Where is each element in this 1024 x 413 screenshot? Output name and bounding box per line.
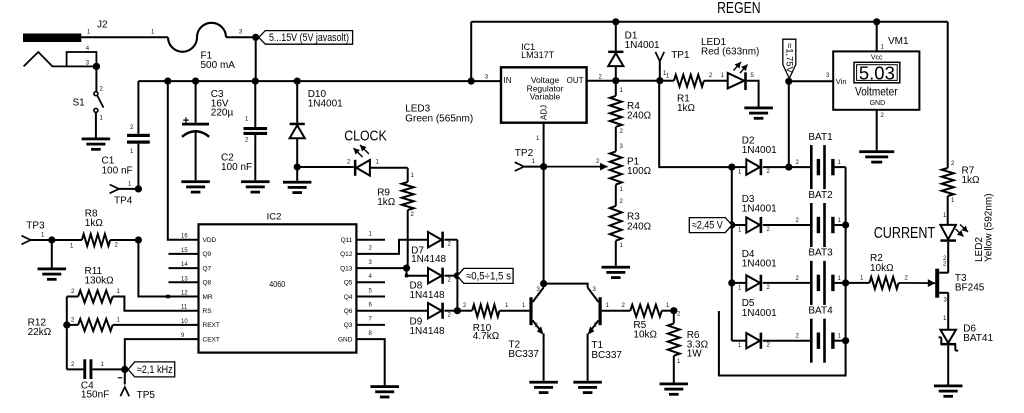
label R1 1kOhm <box>677 94 696 115</box>
ground under D10 <box>283 181 312 194</box>
IC2 stub Q3 <box>356 324 385 326</box>
wire LED2 to T3 drain <box>947 242 949 273</box>
IC2 stub Q8 <box>169 281 199 283</box>
test point TP2 <box>515 159 544 171</box>
wire node to D8 <box>405 268 428 277</box>
label D2 1N4001 <box>742 135 777 156</box>
wire node to rail <box>255 37 257 81</box>
svg-text:OUT: OUT <box>567 76 584 85</box>
diode D2 1N4001 <box>746 159 762 175</box>
wire R11 left <box>67 289 121 297</box>
wire R1 to LED1 <box>704 73 728 81</box>
IC2 pin name Q8 <box>181 276 212 286</box>
wire D9 to bus <box>445 311 458 319</box>
diode D10 1N4001 <box>290 123 305 139</box>
wire Q13 to node <box>356 267 406 269</box>
wire C4 to node <box>92 362 124 369</box>
resistor R3 <box>610 206 622 241</box>
wire D10 top lead <box>296 81 298 123</box>
ground under R6 <box>660 383 689 396</box>
svg-text:BAT41: BAT41 <box>963 333 993 344</box>
node rail C3 <box>192 78 199 85</box>
node Q13 R9 D8 <box>403 265 410 272</box>
diode D5 1N4001 <box>746 333 762 349</box>
svg-text:S1: S1 <box>73 98 86 109</box>
IC1 pin 3 number <box>485 75 489 81</box>
wire TP1 to R1 <box>660 74 674 81</box>
wire T1 emitter to ground <box>587 334 589 381</box>
wire C1 to TP4 node <box>130 144 138 189</box>
switch S1 <box>94 87 104 122</box>
diode D4 1N4001 <box>746 275 762 291</box>
label R4 240 Ohm <box>627 101 652 122</box>
label Voltmeter <box>855 87 898 99</box>
node D9 R10 <box>454 307 461 314</box>
ground under C2 <box>241 180 269 193</box>
op-amp U1 IC1 LM317T box <box>501 67 587 122</box>
svg-text:5...15V (5V javasolt): 5...15V (5V javasolt) <box>269 32 349 44</box>
label IC2 <box>267 211 282 222</box>
transistor Q2 T2 BC337 <box>529 287 543 335</box>
svg-text:1N4001: 1N4001 <box>308 99 343 110</box>
VM1 GND pin wire <box>877 110 885 151</box>
svg-text:1N4001: 1N4001 <box>742 145 777 156</box>
ground under D6 <box>934 385 963 398</box>
label R8 1kOhm <box>85 208 104 229</box>
battery return bus <box>719 167 846 375</box>
diode D8 1N4148 <box>428 268 444 284</box>
svg-text:1N4148: 1N4148 <box>410 290 445 301</box>
flag 5...15V (5V javasolt) <box>259 31 353 45</box>
VM1 pin name GND <box>870 100 886 107</box>
svg-text:CURRENT: CURRENT <box>874 225 936 242</box>
battery BAT3 <box>810 261 835 305</box>
ground under C3 <box>181 180 210 193</box>
wire D1 top lead <box>615 22 617 51</box>
battery BAT4 <box>810 319 835 363</box>
svg-text:IN: IN <box>504 76 512 85</box>
VM1 pin name Vcc <box>871 55 883 62</box>
label R10 4.7kOhm <box>473 323 500 342</box>
main input rail <box>138 80 501 82</box>
resistor R9 <box>402 182 414 210</box>
node rail D10 <box>294 78 301 85</box>
svg-text:Q8: Q8 <box>203 280 212 287</box>
svg-text:Variable: Variable <box>530 92 561 102</box>
label BAT3 <box>808 248 833 259</box>
svg-text:1N4001: 1N4001 <box>742 259 777 270</box>
wire LED1 to ground <box>747 81 759 107</box>
svg-text:RS: RS <box>203 308 213 315</box>
IC2 pin name RS <box>181 305 212 315</box>
IC2 pin name VDD <box>181 234 217 244</box>
label LED2 Yellow (592nm) <box>974 193 995 262</box>
svg-text:TP3: TP3 <box>26 220 45 231</box>
label D10 1N4001 <box>308 89 343 110</box>
label CLOCK <box>344 129 387 145</box>
wire C2 to ground <box>245 135 255 180</box>
svg-text:1kΩ: 1kΩ <box>962 175 981 186</box>
svg-text:1kΩ: 1kΩ <box>85 218 104 229</box>
wire RS from R11 <box>113 297 199 311</box>
test point TP3 <box>21 233 51 245</box>
resistor R7 <box>942 168 954 196</box>
resistor R2 <box>869 277 898 289</box>
svg-text:1N4148: 1N4148 <box>410 326 445 337</box>
label R9 1kOhm <box>377 188 396 209</box>
svg-text:BAT3: BAT3 <box>808 248 833 259</box>
wire R12 left <box>67 318 121 325</box>
wire BAT1 to bus <box>835 160 846 167</box>
svg-text:1kΩ: 1kΩ <box>377 197 396 208</box>
label C3 16V 220u <box>211 89 234 119</box>
wire node to R8 <box>52 240 82 250</box>
wire bus to D2 <box>732 167 747 176</box>
node ADJ TP2 <box>540 163 547 170</box>
wire Vin node down to BAT1 <box>788 81 790 167</box>
label D5 1N4001 <box>742 298 777 319</box>
node D10 LED3 ground <box>294 163 301 170</box>
svg-text:TP1: TP1 <box>671 50 690 61</box>
svg-text:10kΩ: 10kΩ <box>633 330 657 341</box>
battery BAT2 <box>810 203 835 247</box>
top rail REGEN <box>471 21 948 23</box>
label BAT2 <box>808 190 833 201</box>
transistor Q1 T1 BC337 <box>588 287 602 335</box>
label R6 3.3 Ohm 1W <box>687 330 709 359</box>
wire D1 to OUT node <box>615 66 617 81</box>
svg-text:VDD: VDD <box>203 237 217 244</box>
IC1 pin name ADJ <box>540 105 549 120</box>
VM1 display <box>854 62 900 83</box>
node bus BAT4 <box>842 337 849 344</box>
node rail IC1 IN branch <box>468 78 475 85</box>
ground under T1 <box>573 381 602 394</box>
wire R7 lead from rail <box>948 22 955 168</box>
ground under R3 <box>602 266 631 279</box>
capacitor C4 <box>83 359 92 379</box>
IC2 stub Q7 <box>169 267 199 269</box>
diode D6 BAT41 schottky <box>939 330 959 351</box>
label D8 1N4148 <box>410 281 445 301</box>
resistor R8 <box>82 234 110 246</box>
wire ADJ node down to collectors <box>543 167 545 284</box>
node rail C2 <box>252 78 259 85</box>
svg-text:130kΩ: 130kΩ <box>85 275 115 286</box>
label TP3 <box>26 220 45 231</box>
wire node to LED3 <box>297 160 354 168</box>
capacitor C3 electrolytic <box>182 115 209 137</box>
label T1 BC337 <box>591 340 622 361</box>
node top rail VM1 Vcc <box>873 18 880 25</box>
IC2 pin name CEXT <box>181 333 220 343</box>
svg-text:BAT1: BAT1 <box>808 132 833 143</box>
wire T2 collector up <box>543 284 545 288</box>
wire IC1 ADJ <box>536 123 544 167</box>
label BAT1 <box>808 132 833 143</box>
battery BAT1 <box>810 145 835 189</box>
node bus BAT2 <box>842 221 849 228</box>
node flag timing <box>454 272 461 279</box>
diode D1 1N4001 <box>608 51 623 67</box>
IC2 pin name Q12 <box>340 246 372 259</box>
label P1 100 Ohm <box>627 156 652 177</box>
svg-text:Vin: Vin <box>836 77 847 86</box>
wire CEXT to C4 node <box>125 339 199 369</box>
wire C1 top lead <box>130 81 138 134</box>
wire C3 to ground <box>195 131 197 181</box>
IC2 pin name Q4 <box>344 288 373 301</box>
label F1 500 mA <box>201 51 236 71</box>
node jack pin 3 <box>93 63 100 70</box>
node Vin BAT1 <box>785 164 792 171</box>
svg-text:Q12: Q12 <box>340 251 353 258</box>
label TP2 <box>515 148 534 159</box>
wire jack to S1 <box>95 66 97 92</box>
wire diode bus 457 <box>456 240 458 311</box>
node top rail D1 <box>612 18 619 25</box>
label D1 1N4001 <box>625 31 660 51</box>
label TP4 <box>114 196 133 207</box>
wire MR from R8 node <box>138 240 198 298</box>
svg-text:Q6: Q6 <box>344 308 353 315</box>
resistor R10 <box>472 305 499 317</box>
label R7 1kOhm <box>962 166 981 187</box>
svg-text:Q7: Q7 <box>203 265 212 272</box>
IC1 inner text <box>527 75 564 101</box>
IC2 stub Q5 <box>356 281 385 283</box>
wire jack tip to fuse <box>81 30 168 38</box>
node R8 C1 MR <box>135 236 142 243</box>
wire bus to D3 <box>732 225 747 234</box>
label C2 100 nF <box>221 153 252 173</box>
svg-text:Q4: Q4 <box>344 294 353 301</box>
svg-text:240Ω: 240Ω <box>627 221 652 232</box>
svg-text:GND: GND <box>338 336 353 343</box>
svg-text:≈1,75V: ≈1,75V <box>784 43 795 74</box>
flag approx 0,5-1,5 s <box>457 268 513 283</box>
diode D9 1N4148 <box>428 303 444 319</box>
svg-text:Q11: Q11 <box>341 237 353 244</box>
node TP3 R8 <box>48 236 55 243</box>
svg-text:4060: 4060 <box>269 279 285 289</box>
label 4060 <box>269 279 285 289</box>
svg-text:100 nF: 100 nF <box>221 162 252 173</box>
wire R10 to T2 base <box>500 303 530 311</box>
node C4 CEXT TP5 <box>121 366 128 373</box>
node R12 left <box>63 321 70 328</box>
svg-text:BAT2: BAT2 <box>808 190 833 201</box>
svg-text:5.03: 5.03 <box>859 64 895 84</box>
wire R7 to LED2 <box>943 196 955 225</box>
svg-text:J2: J2 <box>97 20 108 31</box>
svg-text:22kΩ: 22kΩ <box>28 327 52 338</box>
IC2 pin name GND <box>338 331 373 344</box>
wire P1 to R3 <box>616 185 624 206</box>
diode D7 1N4148 <box>428 232 444 248</box>
diode bus vertical <box>731 167 733 341</box>
jack switch contact box <box>67 46 97 67</box>
svg-text:Voltmeter: Voltmeter <box>855 87 898 99</box>
wire D2 to BAT1 <box>763 160 810 175</box>
label J2 <box>97 20 108 31</box>
node TP1 <box>656 77 663 84</box>
wire R4 top lead <box>616 81 624 96</box>
test point TP4 <box>110 182 139 194</box>
wire REXT from R12 <box>113 324 199 326</box>
node rail VDD branch <box>164 78 171 85</box>
wire R8 to node <box>110 240 138 249</box>
svg-text:Green (565nm): Green (565nm) <box>405 114 473 125</box>
wire R6 to ground <box>674 356 681 383</box>
wire C3 top lead <box>195 81 197 123</box>
svg-text:1W: 1W <box>687 348 703 359</box>
label CURRENT <box>874 225 936 242</box>
wire S1 to ground <box>95 112 97 137</box>
LED LED2 <box>940 225 968 263</box>
node fuse output <box>252 34 259 41</box>
wire Q6 to D9 <box>356 310 428 312</box>
svg-text:REGEN: REGEN <box>717 0 761 17</box>
IC2 pin name Q6 <box>344 303 373 316</box>
connector J2 plug tip bar <box>23 34 81 43</box>
P1 wiper arrow <box>544 159 608 171</box>
IC2 pin name MR <box>181 291 213 301</box>
IC2 pin name Q11 <box>341 232 373 245</box>
wire D4 to BAT3 <box>763 276 810 291</box>
wire TP3 node to ground <box>51 240 53 268</box>
svg-text:BC337: BC337 <box>591 350 622 361</box>
IC2 pin name Q3 <box>344 317 373 330</box>
wire BAT4 to bus <box>835 334 846 341</box>
svg-text:Q5: Q5 <box>344 280 353 287</box>
wire OUT row to TP1 <box>616 80 660 82</box>
capacitor C1 <box>127 134 150 144</box>
wire bus to D4 <box>732 283 747 292</box>
wire R4 to P1 <box>616 127 624 152</box>
wire LED3 to R9 <box>370 160 415 183</box>
label R5 10kOhm <box>633 320 657 341</box>
wire rail up to top rail <box>470 22 472 81</box>
node diode bus top <box>728 164 735 171</box>
fuse F1 <box>168 23 226 52</box>
potentiometer P1 <box>610 151 622 184</box>
svg-text:Q3: Q3 <box>344 322 353 329</box>
wire D6 to ground <box>947 345 949 384</box>
voltmeter VM1 box <box>833 51 919 109</box>
label T3 BF245 <box>955 273 985 294</box>
label TP1 <box>671 50 690 61</box>
resistor R5 <box>630 305 662 317</box>
svg-text:100Ω: 100Ω <box>627 166 652 177</box>
IC2 stub Q11 <box>356 239 385 241</box>
svg-text:Vcc: Vcc <box>871 55 883 62</box>
svg-text:1N4001: 1N4001 <box>742 308 777 319</box>
svg-text:≈2,1 kHz: ≈2,1 kHz <box>137 364 173 376</box>
label T2 BC337 <box>508 339 539 360</box>
label LED1 Red (633nm) <box>701 37 759 57</box>
flag approx 1,75V <box>783 39 796 78</box>
wire D3 to BAT2 <box>763 218 810 233</box>
label D6 BAT41 <box>963 324 993 345</box>
wire Q12 to D7 <box>356 240 428 254</box>
IC2 pin name Q13 <box>340 260 372 273</box>
jack sleeve spring contact <box>24 52 67 66</box>
svg-text:TP4: TP4 <box>114 196 133 207</box>
ground under S1 <box>82 138 111 151</box>
capacitor C2 <box>244 127 268 135</box>
wire R5 to node <box>662 303 674 311</box>
ground under VM1 <box>859 150 894 163</box>
label C4 150nF <box>81 380 109 400</box>
wire R3 to ground <box>616 241 624 266</box>
wire D5 to BAT4 <box>763 334 810 349</box>
label D4 1N4001 <box>742 249 777 270</box>
label IC1 LM317T <box>521 42 555 60</box>
wire BAT2 to bus <box>835 218 846 225</box>
svg-text:500 mA: 500 mA <box>201 60 236 71</box>
ground under TP3 <box>38 268 67 281</box>
IC2 pin name Q9 <box>181 248 212 258</box>
wire TP1 down to D2 row <box>659 81 732 167</box>
flag approx 2,45 V <box>689 218 732 233</box>
svg-text:VM1: VM1 <box>888 36 909 47</box>
svg-text:ADJ: ADJ <box>540 105 549 120</box>
wire fuse to node <box>226 30 256 38</box>
svg-text:150nF: 150nF <box>81 390 109 401</box>
IC1 pin name OUT <box>567 76 584 85</box>
svg-text:BC337: BC337 <box>508 349 539 360</box>
svg-text:IC2: IC2 <box>267 211 282 222</box>
svg-text:1kΩ: 1kΩ <box>677 103 696 114</box>
label C1 100 nF <box>102 156 133 177</box>
label S1 <box>73 98 86 109</box>
svg-text:TP2: TP2 <box>515 148 534 159</box>
node R5 R6 <box>670 307 677 314</box>
IC1 pin name IN <box>504 76 512 85</box>
node bus BAT3 R2 <box>842 279 849 286</box>
wire D8 to bus <box>445 276 458 284</box>
label D9 1N4148 <box>410 317 445 337</box>
resistor R11 <box>78 291 113 303</box>
VM1 display value 5.03 <box>859 64 895 84</box>
wire D10 to node <box>296 138 298 167</box>
node flag Vin battery <box>785 78 792 85</box>
wire BAT3 to bus <box>835 276 846 283</box>
wire bus to R10 <box>457 303 472 311</box>
svg-text:BAT4: BAT4 <box>808 306 833 317</box>
svg-text:Q9: Q9 <box>203 251 212 258</box>
svg-text:Yellow (592nm): Yellow (592nm) <box>984 193 995 262</box>
wire R2 to T3 gate <box>899 275 936 287</box>
diode D3 1N4001 <box>746 217 762 233</box>
svg-text:Red (633nm): Red (633nm) <box>701 47 759 58</box>
transistor Q3 T3 BF245 <box>935 262 948 304</box>
VM1 Vcc pin wire <box>877 22 885 52</box>
svg-text:≈0,5÷1,5 s: ≈0,5÷1,5 s <box>466 271 511 283</box>
label R11 130kOhm <box>85 266 115 287</box>
label D7 1N4148 <box>411 245 446 264</box>
svg-text:MR: MR <box>203 294 213 301</box>
svg-text:REXT: REXT <box>203 322 220 329</box>
label TP5 <box>137 390 156 401</box>
test point TP5 <box>118 369 129 396</box>
wire collector link <box>544 284 588 288</box>
svg-text:Q13: Q13 <box>340 265 353 272</box>
wire Vin node to VM1 <box>789 73 833 81</box>
resistor R4 <box>610 96 622 127</box>
svg-text:BF245: BF245 <box>955 283 985 294</box>
